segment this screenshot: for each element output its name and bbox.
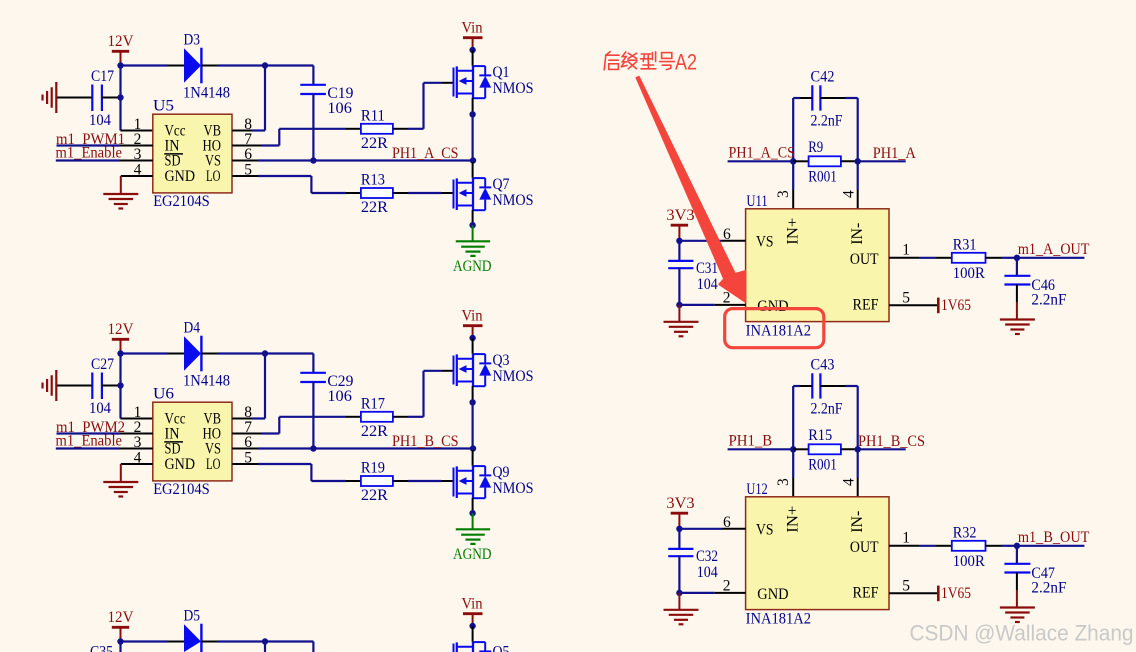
wire 12V stub: [120, 51, 122, 65]
power port Vin: [463, 614, 483, 626]
svg-text:2: 2: [723, 577, 731, 594]
wire cap top left: [793, 97, 800, 99]
wire filter cap to ground: [1016, 285, 1018, 303]
wire C-boot to VS row: [312, 94, 314, 161]
svg-text:NMOS: NMOS: [493, 192, 534, 209]
node GND row: [676, 302, 682, 308]
wire cap to Vcc rail: [102, 97, 121, 99]
diode D5: [168, 624, 218, 652]
capacitor C31: [668, 261, 693, 268]
wire pin 3 IN+: [792, 449, 794, 478]
resistor R13: [361, 188, 393, 198]
wire pin 7 HO to gate resistor: [232, 145, 262, 147]
transistor Q1: [454, 50, 492, 114]
wire pin 3 IN+: [792, 161, 794, 190]
svg-text:3V3: 3V3: [666, 495, 694, 512]
svg-text:INA181A2: INA181A2: [746, 322, 812, 339]
svg-text:R15: R15: [808, 427, 832, 444]
wire cap to gnd row: [678, 268, 680, 305]
wire VS supply: [679, 528, 722, 530]
capacitor C32: [668, 549, 693, 556]
svg-text:106: 106: [327, 388, 352, 405]
node Vcc cap junction: [117, 382, 123, 388]
wire pin 8 VB: [232, 130, 252, 132]
svg-text:INA181A2: INA181A2: [746, 610, 812, 627]
svg-text:Q5: Q5: [493, 644, 510, 652]
transistor Q3: [454, 338, 492, 402]
svg-text:GND: GND: [165, 456, 196, 473]
svg-text:2.2nF: 2.2nF: [811, 112, 843, 129]
ground: [664, 322, 699, 337]
ground: [103, 482, 138, 497]
svg-text:C43: C43: [811, 356, 835, 373]
svg-text:22R: 22R: [361, 423, 389, 440]
power port 1V65: [937, 586, 940, 602]
svg-text:2.2nF: 2.2nF: [1031, 292, 1066, 309]
wire cap left drop: [792, 98, 794, 161]
svg-text:100R: 100R: [953, 265, 986, 282]
wire to shunt: [793, 448, 808, 450]
wire C-boot drop: [312, 66, 314, 85]
wire IN net: [57, 432, 121, 434]
wire pin 1 OUT: [889, 257, 919, 259]
svg-text:5: 5: [902, 289, 910, 306]
svg-text:3: 3: [775, 478, 792, 486]
svg-text:C31: C31: [696, 260, 718, 277]
wire GND pin: [679, 592, 714, 594]
svg-text:Vin: Vin: [462, 595, 483, 612]
svg-text:REF: REF: [853, 297, 879, 314]
wire pin 1 Vcc stub: [121, 130, 153, 132]
svg-text:5: 5: [902, 577, 910, 594]
svg-text:R31: R31: [953, 236, 977, 253]
svg-text:106: 106: [327, 100, 352, 117]
wire cap top left: [793, 385, 800, 387]
svg-text:12V: 12V: [108, 609, 135, 626]
wire SD net: [56, 447, 120, 449]
svg-text:LO: LO: [206, 168, 221, 185]
wire pin8 branch: [264, 642, 266, 652]
node shunt left: [790, 446, 796, 452]
svg-text:VS: VS: [756, 234, 774, 251]
transistor Q5 partial: [454, 626, 492, 652]
capacitor C47: [1004, 564, 1030, 573]
svg-text:VS: VS: [756, 522, 774, 539]
wire Vcc vertical: [119, 354, 121, 419]
wire 12V stub: [120, 627, 122, 641]
svg-text:104: 104: [89, 112, 111, 129]
node OUT filter: [1014, 543, 1020, 549]
wire C-boot drop: [312, 354, 314, 373]
capacitor C17: [92, 85, 102, 112]
wire pin 5 REF: [889, 304, 937, 306]
wire OUT net: [1017, 545, 1085, 547]
wire pin 8 VB: [232, 418, 252, 420]
svg-text:2.2nF: 2.2nF: [811, 400, 843, 417]
svg-text:PH1_A_CS: PH1_A_CS: [392, 145, 459, 162]
wire pin 4 IN-: [857, 161, 859, 190]
annotation arrow: [635, 76, 746, 304]
gate driver IC U5 EG2104S: [153, 114, 232, 193]
svg-text:1: 1: [902, 530, 910, 547]
wire top rail left: [121, 640, 168, 642]
svg-text:22R: 22R: [361, 199, 389, 216]
svg-text:Q1: Q1: [493, 64, 510, 81]
wire pin 4 GND stub: [121, 463, 153, 465]
svg-text:U11: U11: [746, 193, 767, 210]
wire pin 6 VS phase net: [232, 160, 258, 162]
wire cap to Vcc rail: [102, 385, 121, 387]
svg-text:A2: A2: [675, 50, 697, 75]
svg-text:U5: U5: [153, 98, 174, 115]
svg-text:OUT: OUT: [850, 539, 879, 556]
capacitor C43: [812, 373, 820, 398]
svg-text:m1_A_OUT: m1_A_OUT: [1018, 241, 1090, 258]
svg-text:IN+: IN+: [785, 218, 802, 245]
node 12V rail junction: [117, 62, 123, 68]
power port 3V3: [671, 225, 688, 239]
gate driver IC U6 EG2104S: [153, 402, 232, 481]
wire earth to cap: [57, 97, 92, 99]
wire pin 5 REF: [889, 592, 937, 594]
node shunt right: [855, 158, 861, 164]
svg-text:AGND: AGND: [453, 258, 492, 275]
svg-text:1N4148: 1N4148: [183, 85, 230, 102]
wire OUT to node: [986, 257, 1002, 259]
wire earth to cap: [57, 385, 92, 387]
node Vin: [469, 335, 475, 341]
power port 12V: [112, 627, 129, 641]
wire VS supply: [679, 240, 722, 242]
current sense amp U12 INA181A2: [746, 497, 889, 610]
svg-text:GND: GND: [165, 168, 196, 185]
wire pin 1 OUT: [889, 545, 919, 547]
svg-text:1: 1: [902, 242, 910, 259]
wire cap top right: [820, 385, 845, 387]
node OUT filter: [1014, 255, 1020, 261]
svg-text:3V3: 3V3: [666, 207, 694, 224]
svg-text:4: 4: [841, 190, 858, 198]
svg-text:U12: U12: [746, 481, 767, 498]
node Q low source junction: [469, 510, 475, 516]
svg-text:Q3: Q3: [493, 352, 510, 369]
svg-text:OUT: OUT: [850, 251, 879, 268]
wire shunt row left: [728, 160, 794, 162]
wire cap left drop: [792, 386, 794, 449]
svg-text:NMOS: NMOS: [493, 368, 534, 385]
svg-text:LO: LO: [206, 456, 221, 473]
resistor R19: [361, 476, 393, 486]
wire cap right drop: [857, 386, 859, 449]
earth ground: [43, 82, 57, 113]
svg-text:D3: D3: [184, 32, 201, 49]
wire OUT net: [1017, 257, 1085, 259]
svg-text:GND: GND: [757, 586, 788, 603]
wire shunt row left: [728, 448, 794, 450]
wire to AGND: [472, 513, 474, 529]
wire to AGND: [472, 225, 474, 241]
power port Vin: [463, 326, 483, 338]
node VS supply: [676, 526, 682, 532]
wire top rail left: [121, 352, 168, 354]
resistor R11: [361, 124, 393, 134]
annotation text 后缀型号A2 (vector strokes): [604, 52, 674, 70]
node shunt right: [855, 446, 861, 452]
wire top rail right: [217, 640, 313, 642]
wire LO resistor to Q gate: [393, 192, 408, 194]
svg-text:100R: 100R: [953, 553, 986, 570]
node VS junction: [470, 157, 476, 163]
ground: [1000, 320, 1035, 335]
svg-text:PH1_B_CS: PH1_B_CS: [858, 433, 925, 450]
node Vin: [469, 47, 475, 53]
capacitor C42: [812, 85, 820, 110]
wire filter cap to ground: [1016, 573, 1018, 591]
wire pin 4 IN-: [857, 449, 859, 478]
power port Vin: [463, 38, 483, 50]
svg-text:IN-: IN-: [849, 511, 866, 533]
svg-text:R001: R001: [808, 456, 837, 473]
node VB bootstrap junction: [262, 638, 268, 644]
transistor Q9: [454, 450, 492, 513]
svg-text:m1_B_OUT: m1_B_OUT: [1018, 529, 1090, 546]
node GND row: [676, 590, 682, 596]
wire cap top right: [820, 97, 845, 99]
ground: [1000, 608, 1035, 623]
svg-text:R19: R19: [361, 460, 385, 477]
svg-text:GND: GND: [757, 298, 788, 315]
wire shunt row right: [858, 160, 906, 162]
svg-text:R32: R32: [953, 524, 977, 541]
svg-text:2.2nF: 2.2nF: [1031, 580, 1066, 597]
svg-text:104: 104: [697, 276, 718, 293]
svg-text:m1_Enable: m1_Enable: [56, 144, 123, 161]
diode D4: [168, 336, 218, 372]
power port 3V3: [671, 513, 688, 527]
capacitor C19: [300, 85, 326, 94]
wire HO resistor to Q gate: [393, 128, 408, 130]
wire top rail right: [217, 64, 313, 66]
resistor R15 shunt: [809, 444, 841, 454]
svg-text:D4: D4: [184, 320, 201, 337]
capacitor C29: [300, 373, 326, 382]
wire pin 5 LO to gate resistor: [232, 463, 258, 465]
wire GND pin: [679, 304, 714, 306]
svg-text:104: 104: [697, 564, 718, 581]
power port 12V: [112, 51, 129, 65]
node Q low source junction: [469, 222, 475, 228]
svg-text:R001: R001: [808, 168, 837, 185]
ground: [103, 194, 138, 209]
node shunt left: [790, 158, 796, 164]
svg-text:12V: 12V: [108, 321, 135, 338]
svg-text:Q9: Q9: [493, 464, 510, 481]
svg-text:3: 3: [775, 190, 792, 198]
resistor R17: [361, 412, 393, 422]
resistor R32: [952, 541, 986, 551]
wire pin 6 VS phase net: [232, 448, 258, 450]
wire C-boot to VS row: [312, 382, 314, 449]
wire C-boot drop: [312, 642, 314, 652]
node 12V rail junction: [117, 350, 123, 356]
wire to ground: [678, 593, 680, 610]
power port 12V: [112, 339, 129, 353]
wire pin 4 GND stub: [121, 175, 153, 177]
svg-text:6: 6: [723, 226, 731, 243]
svg-text:Vin: Vin: [462, 307, 483, 324]
wire to ground: [678, 305, 680, 322]
wire pin 1 Vcc stub: [121, 418, 153, 420]
svg-text:PH1_A: PH1_A: [873, 145, 917, 162]
resistor R31: [952, 253, 986, 263]
transistor Q7: [454, 162, 492, 225]
svg-text:PH1_B_CS: PH1_B_CS: [392, 433, 459, 450]
svg-text:1V65: 1V65: [941, 297, 971, 314]
wire pin 7 HO to gate resistor: [232, 433, 262, 435]
svg-text:C42: C42: [811, 68, 835, 85]
wire pin 5 LO to gate resistor: [232, 175, 258, 177]
capacitor C27: [92, 373, 102, 400]
svg-text:R13: R13: [361, 172, 385, 189]
wire shunt row right: [858, 448, 906, 450]
annotation highlight box around INA181A2: [725, 309, 824, 348]
wire shunt right: [841, 448, 858, 450]
svg-text:PH1_B: PH1_B: [729, 433, 773, 450]
svg-text:R11: R11: [361, 108, 385, 125]
earth ground: [43, 370, 57, 401]
wire OUT to node: [986, 545, 1002, 547]
svg-text:C35: C35: [90, 644, 113, 652]
wire cap drop: [678, 241, 680, 261]
svg-text:Vin: Vin: [462, 19, 483, 36]
svg-text:1N4148: 1N4148: [183, 373, 230, 390]
wire LO resistor to Q gate: [393, 480, 408, 482]
wire Vcc vertical: [119, 642, 121, 652]
svg-text:22R: 22R: [361, 487, 389, 504]
current sense amp U11 INA181A2: [746, 209, 889, 322]
svg-text:NMOS: NMOS: [493, 480, 534, 497]
svg-text:C17: C17: [91, 68, 114, 85]
ground: [664, 610, 699, 625]
svg-text:CSDN @Wallace Zhang: CSDN @Wallace Zhang: [910, 621, 1134, 646]
wire shunt right: [841, 160, 858, 162]
wire phase vertical: [472, 114, 474, 160]
svg-text:22R: 22R: [361, 135, 389, 152]
node 12V rail junction: [117, 638, 123, 644]
wire HO resistor to Q gate: [393, 416, 408, 418]
svg-text:U6: U6: [153, 386, 174, 403]
wire cap drop: [678, 529, 680, 549]
svg-text:1V65: 1V65: [941, 585, 971, 602]
node Vcc cap junction: [117, 94, 123, 100]
node VS supply: [676, 238, 682, 244]
svg-text:C27: C27: [91, 356, 114, 373]
svg-text:m1_Enable: m1_Enable: [56, 432, 123, 449]
svg-text:6: 6: [723, 514, 731, 531]
svg-text:12V: 12V: [108, 33, 135, 50]
wire 12V stub: [120, 339, 122, 353]
svg-text:R17: R17: [361, 396, 385, 413]
svg-text:IN-: IN-: [849, 223, 866, 245]
wire top rail left: [121, 64, 168, 66]
wire phase vertical: [472, 402, 474, 448]
svg-text:AGND: AGND: [453, 546, 492, 563]
wire Vcc vertical: [119, 66, 121, 131]
node Q source junction: [469, 399, 475, 405]
svg-text:Q7: Q7: [493, 176, 510, 193]
svg-text:REF: REF: [853, 585, 879, 602]
ground AGND symbol: [456, 241, 490, 256]
svg-text:IN+: IN+: [785, 506, 802, 533]
svg-text:PH1_A_CS: PH1_A_CS: [729, 145, 796, 162]
svg-text:EG2104S: EG2104S: [153, 193, 210, 210]
wire IN net: [57, 144, 121, 146]
node Vin: [469, 623, 475, 629]
diode D3: [168, 48, 218, 84]
node C-boot VS junction: [310, 445, 316, 451]
wire top rail right: [217, 352, 313, 354]
node VB bootstrap junction: [262, 62, 268, 68]
node Q source junction: [469, 111, 475, 117]
capacitor C46: [1004, 276, 1030, 285]
power port 1V65: [937, 298, 940, 314]
wire cap right drop: [857, 98, 859, 161]
node C-boot VS junction: [310, 157, 316, 163]
wire cap to gnd row: [678, 556, 680, 593]
svg-text:104: 104: [89, 400, 111, 417]
wire SD net: [56, 159, 120, 161]
wire to shunt: [793, 160, 808, 162]
svg-text:4: 4: [841, 478, 858, 486]
wire filter cap drop: [1016, 546, 1018, 564]
wire filter cap drop: [1016, 258, 1018, 276]
svg-text:NMOS: NMOS: [493, 80, 534, 97]
svg-text:D5: D5: [184, 608, 201, 625]
svg-text:EG2104S: EG2104S: [153, 481, 210, 498]
svg-text:C32: C32: [696, 548, 718, 565]
resistor R9 shunt: [809, 156, 841, 166]
svg-text:R9: R9: [808, 139, 823, 156]
node VS junction: [470, 445, 476, 451]
ground AGND symbol: [456, 529, 490, 544]
node VB bootstrap junction: [262, 350, 268, 356]
